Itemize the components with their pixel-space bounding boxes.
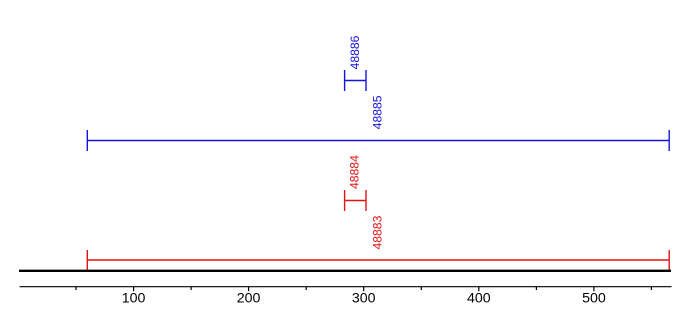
major ticks 100..500 (134, 287, 594, 292)
minor ticks 50,150,250,350,450,550 (76, 287, 651, 290)
svg-text:100: 100 (122, 290, 146, 306)
blue product line (87, 130, 669, 151)
ruler axis (20, 286, 672, 288)
svg-text:48886: 48886 (348, 35, 362, 69)
sequence line (thick black) (19, 270, 671, 272)
svg-text:48883: 48883 (370, 215, 384, 249)
red product line (87, 250, 669, 270)
primer pair 48886/48885 I-beam (blue) (345, 70, 366, 91)
primer pair 48884/48883 I-beam (red) (345, 190, 366, 211)
svg-text:48885: 48885 (371, 95, 385, 129)
svg-text:500: 500 (582, 290, 606, 306)
svg-text:300: 300 (352, 290, 376, 306)
svg-text:48884: 48884 (348, 155, 362, 189)
svg-text:200: 200 (237, 290, 261, 306)
svg-text:400: 400 (467, 290, 491, 306)
